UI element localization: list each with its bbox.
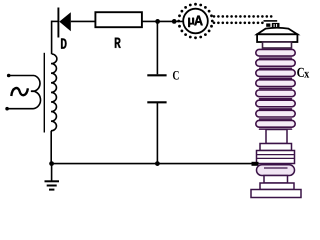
label R <box>115 38 121 48</box>
bushing Cx shed underside lines <box>260 58 292 129</box>
diode D cathode bar <box>57 8 59 38</box>
transformer T secondary winding <box>51 54 57 131</box>
bushing Cx lower band 2 <box>257 151 295 164</box>
ground <box>45 181 60 189</box>
node junction capacitor bottom <box>155 161 160 166</box>
transformer T primary winding <box>31 76 41 109</box>
capacitor C top plate <box>147 74 166 76</box>
bushing Cx lower cylinder <box>266 130 287 144</box>
bushing Cx neck <box>263 42 292 48</box>
wire transformer secondary bottom down to ground rail <box>50 131 52 164</box>
bushing Cx top knob <box>272 23 280 29</box>
bushing Cx base plate 2 <box>251 190 301 198</box>
wire capacitor bottom lead <box>156 102 158 163</box>
label Cx <box>297 68 304 77</box>
wire capacitor top lead <box>156 21 158 74</box>
diode D triangle <box>59 12 71 31</box>
bushing Cx cap dome <box>257 28 297 35</box>
wire lead end line above knob <box>264 20 278 22</box>
AC source bottom terminal dot <box>5 107 9 111</box>
op meter uA circle <box>183 9 208 34</box>
AC source bottom terminal wire <box>7 108 33 110</box>
node junction before meter <box>172 19 177 24</box>
node junction at capacitor top <box>155 19 160 24</box>
wire left vertical from top corner down to transformer secondary top <box>51 21 53 55</box>
AC source top terminal dot <box>7 74 11 78</box>
wire top-left horizontal to diode <box>52 20 59 22</box>
bushing Cx cap band <box>257 34 297 42</box>
bushing Cx base plate 1 <box>260 183 294 190</box>
wire resistor to meter <box>142 20 183 22</box>
resistor R body <box>95 12 141 27</box>
bushing Cx lower band 1 <box>260 144 292 151</box>
bushing Cx lower disc <box>257 165 295 176</box>
AC source top terminal wire <box>9 75 34 77</box>
label D <box>61 38 67 48</box>
capacitor C bottom plate <box>147 101 166 103</box>
node junction bottom-left <box>49 161 54 166</box>
bushing Cx sheds <box>256 49 295 127</box>
wire shielded lead dotted row top <box>213 15 273 18</box>
terminal blob left of knob <box>266 23 270 26</box>
bushing Cx lower stem <box>264 176 288 184</box>
bushing Cx connection terminal <box>252 162 259 166</box>
transformer core <box>43 53 45 133</box>
label uA <box>188 18 194 27</box>
wire diode to resistor <box>71 20 96 22</box>
label C <box>173 71 179 80</box>
ground stub <box>51 164 53 182</box>
wire shielded lead dotted row bottom <box>213 22 264 25</box>
meter guard ring dots <box>177 3 213 39</box>
AC sine symbol ~ <box>11 88 28 96</box>
wire bottom rail <box>52 163 256 165</box>
